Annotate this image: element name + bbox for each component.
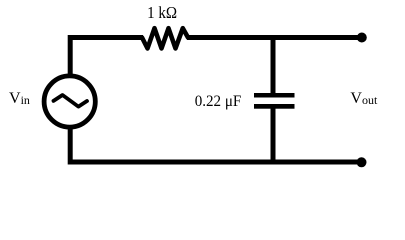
- wire: bottom-left vertical segment: [68, 127, 73, 165]
- wire: capacitor bottom vertical segment: [271, 109, 276, 164]
- wire: top-left vertical segment: [68, 35, 73, 76]
- capacitor C1 bottom plate: [254, 104, 295, 109]
- svg-text:1 kΩ: 1 kΩ: [147, 3, 177, 22]
- resistor R1 zigzag: [142, 28, 188, 48]
- wire: capacitor top vertical segment: [271, 36, 276, 93]
- AC voltage source sine wave: [54, 95, 88, 107]
- node: bottom output terminal dot: [357, 157, 367, 167]
- AC voltage source V1 circle: [44, 76, 95, 127]
- svg-text:0.22 μF: 0.22 μF: [195, 93, 242, 110]
- capacitor C1 top plate: [254, 93, 295, 98]
- wire: bottom horizontal segment: [68, 160, 362, 165]
- svg-text:Vout: Vout: [350, 90, 378, 107]
- svg-text:Vin: Vin: [9, 90, 30, 107]
- node: top output terminal dot: [357, 33, 367, 43]
- wire: top-right horizontal segment: [187, 35, 362, 40]
- wire: top-left horizontal segment: [68, 35, 143, 40]
